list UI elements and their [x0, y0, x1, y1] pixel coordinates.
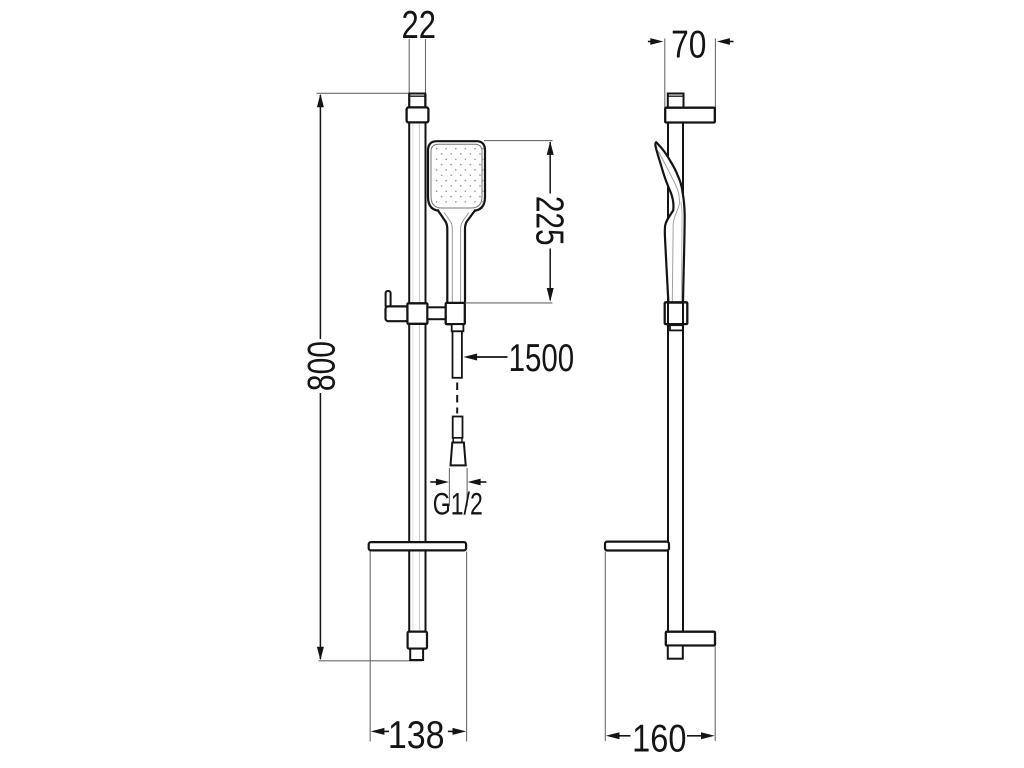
dim text 70: [671, 23, 706, 66]
side rail tube: [668, 95, 683, 632]
rail inner highlight: [413, 124, 420, 630]
svg-text:1500: 1500: [509, 337, 575, 380]
extension line G1/2 left: [448, 468, 450, 506]
hose end cone G1/2: [451, 443, 466, 466]
upper wall bracket (front): [407, 107, 429, 122]
upper wall bracket (side): [665, 108, 715, 123]
extension line 160 right: [714, 647, 716, 742]
G1/2 dimension arrows: [430, 479, 486, 486]
holder block (side): [665, 302, 688, 324]
soap dish (side): [605, 542, 669, 551]
handle neck (front): [437, 210, 475, 304]
svg-text:138: 138: [388, 714, 445, 757]
extension line 138 right: [466, 552, 468, 742]
dim text 160: [632, 717, 686, 760]
extension line 225 top: [484, 140, 553, 142]
dimension line 800: [317, 94, 324, 661]
dimension line 225: [547, 141, 554, 302]
svg-text:70: 70: [671, 23, 706, 66]
handshower side profile (beak + handle): [655, 142, 684, 302]
dim text 800 (rotated, reads upward): [300, 341, 343, 391]
rail top end cap: [409, 94, 425, 108]
holder notch (side): [670, 325, 683, 330]
rail bottom tip (front): [410, 649, 423, 660]
extension line 225 bottom: [465, 302, 552, 304]
dim text 1500: [509, 337, 575, 380]
dim text 22: [401, 4, 436, 47]
extension line 70 left: [664, 39, 666, 108]
dim text 138: [388, 714, 445, 757]
svg-text:G1/2: G1/2: [433, 485, 483, 521]
svg-text:22: 22: [401, 4, 436, 47]
hose dashed continuation: [456, 383, 458, 414]
hose end fitting body: [453, 417, 463, 438]
extension line 22 left: [408, 39, 410, 94]
extension line 22 right: [425, 39, 427, 94]
handshower holder block (front): [446, 303, 465, 324]
extension line 160 left: [604, 552, 606, 742]
70 dimension arrows: [648, 38, 734, 45]
spray nozzle dots: [436, 148, 484, 203]
slider block on rail: [407, 303, 427, 324]
svg-text:800: 800: [300, 341, 343, 391]
1500 leader arrow: [463, 354, 507, 361]
extension line 800 bottom: [319, 660, 423, 662]
hose end fitting band: [453, 438, 462, 443]
left rail tube: [409, 95, 425, 632]
extension line 138 left: [369, 552, 371, 742]
svg-text:225: 225: [528, 196, 571, 246]
svg-text:160: 160: [632, 717, 686, 760]
shower head (front): [428, 141, 485, 211]
hose upper segment: [453, 331, 462, 378]
slider-holder connector: [427, 307, 446, 319]
slider arm: [386, 306, 409, 321]
dimension line 138 with arrows: [371, 728, 467, 735]
side rail end cap: [668, 94, 684, 108]
lower wall bracket (side): [666, 632, 715, 646]
soap dish (front): [369, 542, 466, 550]
rail bottom collar (front): [408, 632, 427, 649]
slider hook: [386, 291, 391, 308]
extension line 800 top: [317, 92, 410, 94]
extension line G1/2 right: [466, 468, 468, 506]
dim text 225 (rotated, reads downward): [528, 196, 571, 246]
hose collar: [452, 324, 464, 331]
dimension line 160 with arrows: [606, 732, 715, 739]
side rail bottom tip: [668, 646, 683, 659]
extension line 70 right: [714, 39, 716, 123]
dim text G1/2: [433, 485, 483, 521]
